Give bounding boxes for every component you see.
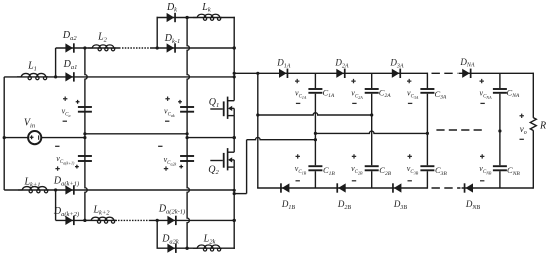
capacitor C2B <box>365 165 379 167</box>
wire row B2 dotted <box>118 219 149 221</box>
wire main vertical upper <box>233 17 235 101</box>
node B2 end junction <box>233 219 236 222</box>
label plate+ Cak <box>178 100 182 104</box>
label + Cak <box>165 97 169 101</box>
label - vo <box>520 138 524 140</box>
label + Cak1 <box>55 166 59 170</box>
inductor Lk+2 <box>87 217 116 223</box>
node Da2 cathode junction <box>83 46 86 49</box>
node Dk cathode junction <box>186 16 189 19</box>
label - C3B <box>408 180 412 182</box>
label plate+ Ca2k <box>179 165 183 169</box>
resistor R <box>530 118 536 131</box>
node n0-rail1 junction <box>256 113 259 116</box>
wire link rail <box>247 137 316 139</box>
diode D1B <box>282 183 290 192</box>
node Da(k+2) cathode junction <box>83 219 86 222</box>
wire rail2 <box>315 131 427 133</box>
capacitor C3A <box>420 88 434 90</box>
capacitor C1B <box>308 165 322 167</box>
label - Cak1 <box>55 145 59 147</box>
diode D3B <box>394 183 402 192</box>
inductor Lk <box>193 14 222 20</box>
wire rail1 <box>258 113 372 115</box>
node main-link junction <box>233 192 236 195</box>
wire rail2 dashed <box>436 129 483 131</box>
label + C3B <box>408 154 412 158</box>
label - C1B <box>296 180 300 182</box>
label - C3A <box>408 102 412 104</box>
capacitor C1A <box>308 88 322 90</box>
wire cap rail 2 <box>187 18 189 249</box>
node T2 end junction <box>233 46 236 49</box>
wire row T2 right <box>152 47 235 49</box>
wire riser Da(k+2) <box>55 190 57 220</box>
inductor L2k <box>193 245 222 251</box>
wire riser Dk anode <box>156 17 158 48</box>
diode Da(k+1) <box>65 185 73 194</box>
diode Da2 <box>65 43 73 52</box>
node capr2-T1 junction <box>186 16 189 19</box>
node rail1-row133 junction <box>83 132 86 135</box>
label - C2B <box>352 180 356 182</box>
diode Da1 <box>65 72 73 81</box>
capacitor Ca2k plates <box>180 155 194 157</box>
diode DNA <box>462 69 470 78</box>
node rail1-vin junction <box>83 136 86 139</box>
label - C1A <box>296 102 300 104</box>
node main-T3 junction <box>233 75 236 78</box>
inductor L1 <box>17 73 48 79</box>
diode Da(2k-1) <box>167 216 175 225</box>
source Vin <box>4 137 28 139</box>
wire B rail dashed <box>432 187 461 189</box>
node capr2-B3 junction <box>186 247 189 250</box>
diode D3A <box>392 69 400 78</box>
label - CNB <box>480 180 484 182</box>
wire row mid-left <box>85 133 187 135</box>
diode D2A <box>336 69 344 78</box>
label + Ca <box>63 97 67 101</box>
node B2 anode junction <box>156 219 159 222</box>
label + vo <box>520 114 524 118</box>
capacitor Ca(k+1) plates <box>78 155 92 157</box>
label - Cak <box>165 120 169 122</box>
node Da2k cathode junction <box>186 247 189 250</box>
wire left rail <box>3 77 5 190</box>
diode Da2k <box>167 244 175 253</box>
capacitor Cak plates <box>180 106 194 108</box>
node Vin+ junction <box>3 136 6 139</box>
node main-B1 junction <box>233 189 236 192</box>
diode D1A <box>279 69 287 78</box>
node rail1 end junction <box>370 113 373 116</box>
node n1-rail2 junction <box>314 132 317 135</box>
label + C1A <box>295 79 299 83</box>
label + C2B <box>352 154 356 158</box>
wire node1 vertical <box>314 73 316 88</box>
wire row mid-right <box>187 137 234 139</box>
capacitor C3B <box>420 165 434 167</box>
node row133 end junction <box>186 132 189 135</box>
node main-Arail junction <box>233 72 236 75</box>
label + C3A <box>407 79 411 83</box>
wire A rail <box>234 72 427 74</box>
inductor L2 <box>88 45 116 51</box>
capacitor C2A <box>365 88 379 90</box>
diode Dk-1 <box>167 43 175 52</box>
label + C2A <box>351 79 355 83</box>
node main-T2 junction <box>233 46 236 49</box>
label - C2A <box>352 102 356 104</box>
node main-B2 junction <box>233 219 236 222</box>
label + CNA <box>480 79 484 83</box>
diode D2B <box>338 183 346 192</box>
capacitor Ca top plates <box>78 106 92 108</box>
wire main vertical lower <box>233 167 235 249</box>
node n0A junction <box>256 72 259 75</box>
wire riser anode Da2 <box>55 48 57 77</box>
node link end junction <box>314 138 317 141</box>
wire n0 vertical <box>257 73 259 188</box>
inductor Lk+1 <box>18 187 49 193</box>
node vin-capr2 junction <box>186 136 189 139</box>
wire row T3 <box>4 76 234 78</box>
wire row T2 left <box>56 47 121 49</box>
wire A rail dashed <box>432 72 458 74</box>
diode Dk <box>167 13 175 22</box>
capacitor CNA <box>493 88 507 90</box>
wire row B2 left <box>56 219 117 221</box>
node B1-riser junction <box>54 188 57 191</box>
wire riser Da2k anode <box>156 220 158 247</box>
diode DNB <box>465 183 473 192</box>
wire cap rail 1 <box>85 48 87 220</box>
diode Da(k+2) <box>65 216 73 225</box>
label - Ca2k <box>158 145 162 147</box>
wire node2 vertical <box>371 73 373 88</box>
label + Ca2k <box>164 166 168 170</box>
capacitor CNB <box>493 165 507 167</box>
label + CNB <box>480 154 484 158</box>
label + C1B <box>296 154 300 158</box>
wire main vertical Q1-source <box>233 116 235 153</box>
node mid row end junction <box>233 136 236 139</box>
node main-mid junction <box>233 136 236 139</box>
svg-text:R: R <box>539 121 546 132</box>
wire load vertical <box>532 73 534 118</box>
label plate+ Cak1 <box>75 165 79 169</box>
wire node3 vertical <box>426 73 428 89</box>
label - Ca <box>63 120 67 122</box>
label plate+ Ca <box>76 100 80 104</box>
node T2 Dk-anode junction <box>156 46 159 49</box>
node railN junction <box>498 129 501 132</box>
wire row T2 dotted <box>122 47 152 49</box>
wire nodeN vertical <box>499 73 501 88</box>
label - CNA <box>480 102 484 104</box>
node rail1-B2 junction <box>83 219 86 222</box>
wire B rail <box>257 187 427 189</box>
transistor Q2 <box>210 160 223 162</box>
node T3-riser junction <box>54 75 57 78</box>
wire link down <box>234 193 246 195</box>
transistor Q1 <box>210 108 223 110</box>
wire row B1 <box>4 189 234 191</box>
wire row B2 right <box>149 219 234 221</box>
node rail2 end junction <box>426 132 429 135</box>
